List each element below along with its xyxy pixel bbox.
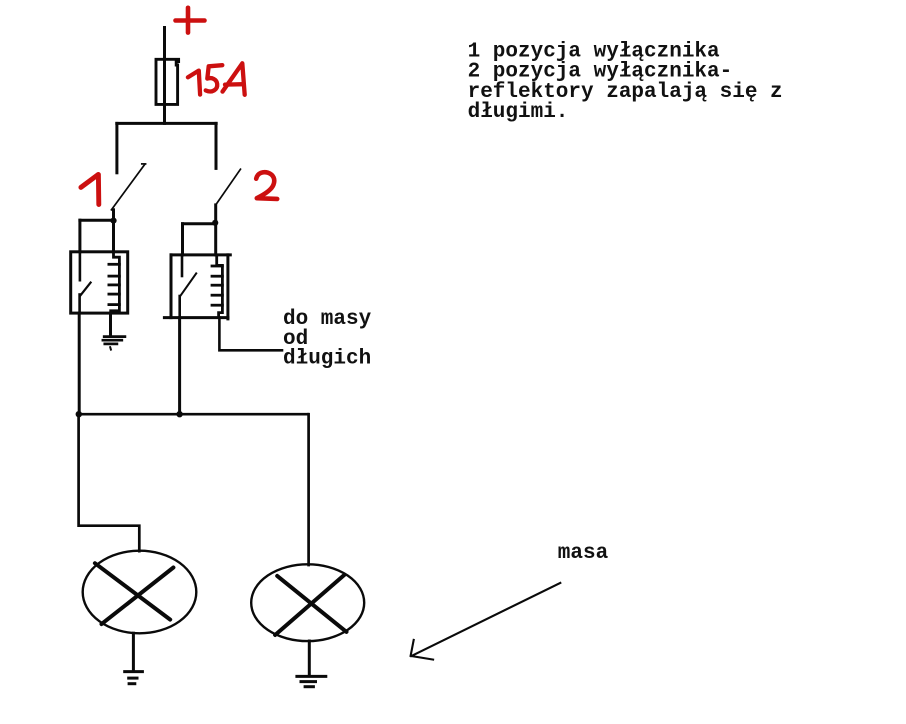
relay K1 contact lower pin [78, 295, 81, 314]
relay K1 coil [109, 252, 120, 313]
svg-text:masa: masa [558, 542, 609, 565]
wire lamp L2 to ground [308, 641, 311, 674]
wire from + down to fuse [163, 28, 166, 61]
wire switch1 to relay K1 [112, 210, 115, 252]
branch wire horizontal [117, 122, 216, 125]
lamp L1 bulb [83, 551, 197, 634]
relay K2 contact blade [180, 273, 196, 296]
relay K2 box [164, 255, 230, 319]
relay K1 box [71, 252, 128, 313]
ground under lamp L2 [297, 676, 326, 686]
wire bus to lamp L2 [307, 414, 310, 565]
node bus junction middle [176, 411, 182, 417]
bus wire horizontal [79, 413, 308, 416]
wire relay K2 coil to "od długich" stub [219, 318, 282, 351]
wire lamp L1 to ground [132, 633, 135, 669]
relay K2 contact pin [181, 255, 184, 276]
wire junction to relay K2 left [183, 222, 216, 225]
wire switch2 to relay K2 [214, 205, 217, 255]
wire relay K1 coil to ground [109, 313, 112, 336]
ground under lamp L1 [125, 672, 143, 684]
relay K1 contact pin [79, 252, 82, 280]
masa pointer arrow [411, 583, 561, 660]
wire junction to relay K1 coil side [80, 219, 114, 222]
wire branch to switch 2 [215, 123, 218, 168]
wire down to relay K2 contact [181, 224, 184, 255]
node bus junction left [76, 411, 82, 417]
switch label 1 (red) [81, 174, 99, 204]
wire down to relay K1 contact [78, 220, 81, 252]
wire relay K2 contact down to bus [178, 318, 181, 415]
node junction dot under switch 2 [212, 220, 218, 226]
switch label 2 (red) [256, 172, 277, 199]
wire bus to lamp L1 [79, 414, 140, 551]
switch S2 blade [216, 169, 241, 205]
lamp L1 filament cross [95, 563, 173, 624]
svg-text:długimi.: długimi. [468, 101, 569, 124]
wire branch to switch 1 [115, 123, 118, 172]
fuse F1 [156, 59, 179, 104]
battery plus terminal (+) [176, 8, 205, 33]
wire relay K1 contact down to bus [78, 313, 81, 414]
lamp L2 bulb [251, 564, 364, 641]
fuse value label 15A [188, 63, 245, 95]
wire through fuse to branch node [163, 60, 166, 123]
svg-text:długich: długich [283, 347, 371, 370]
ground under relay K1 [103, 337, 125, 350]
switch S1 blade [111, 164, 145, 210]
node junction dot under switch 1 [110, 218, 116, 224]
relay K2 coil [212, 255, 222, 318]
relay K2 contact lower pin [178, 296, 181, 318]
relay K1 contact blade [80, 283, 91, 296]
lamp L2 filament cross [275, 575, 346, 635]
